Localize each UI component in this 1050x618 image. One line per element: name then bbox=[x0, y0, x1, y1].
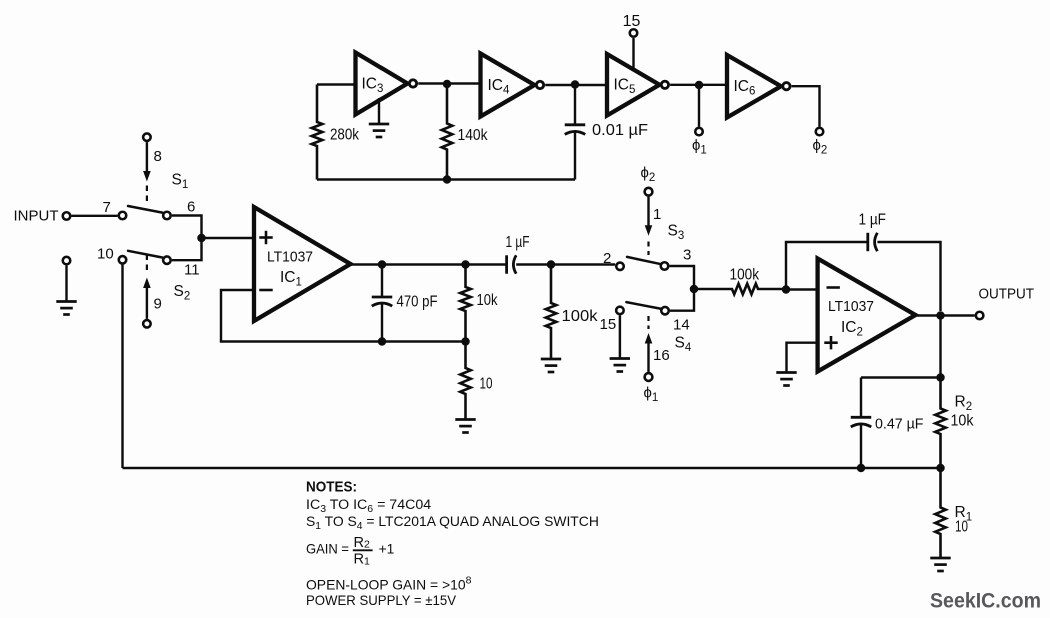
label 10 value bbox=[480, 376, 493, 393]
svg-text:S1 TO S4 = LTC201A QUAD ANALOG: S1 TO S4 = LTC201A QUAD ANALOG SWITCH bbox=[306, 513, 599, 532]
label phi2 top bbox=[813, 137, 828, 157]
switch S4 contact pin14 bbox=[661, 307, 669, 315]
capacitor 1uF feedback bbox=[868, 233, 878, 251]
svg-text:1 µF: 1 µF bbox=[859, 212, 887, 229]
wire IC2 plus ground bbox=[787, 343, 818, 373]
svg-text:6: 6 bbox=[187, 199, 195, 216]
node junction phi1 tap bbox=[695, 81, 704, 90]
node junction feedback res bbox=[461, 337, 470, 346]
switch S4 arm bbox=[626, 302, 661, 309]
arrow S1 control bbox=[143, 142, 151, 181]
wire feedback riser bbox=[121, 264, 123, 468]
dashed line S4 bbox=[647, 316, 649, 329]
label 16 bbox=[653, 347, 670, 364]
ground input side bbox=[56, 302, 76, 315]
svg-text:NOTES:: NOTES: bbox=[306, 480, 357, 496]
label 280k value bbox=[330, 127, 359, 144]
wire pin14 to node bbox=[670, 289, 694, 311]
label 140k value bbox=[458, 127, 488, 144]
resistor 100k shunt bbox=[546, 265, 557, 360]
svg-text:S2: S2 bbox=[174, 283, 191, 303]
svg-text:1 µF: 1 µF bbox=[506, 234, 530, 251]
label 470pF value bbox=[397, 294, 438, 311]
label phi1 bbox=[692, 137, 707, 157]
wire cap to S3 bbox=[516, 263, 615, 265]
dashed line S3 bbox=[647, 242, 649, 256]
svg-text:S4: S4 bbox=[675, 335, 692, 355]
op-amp IC2 bbox=[818, 259, 916, 372]
svg-text:10k: 10k bbox=[477, 292, 498, 309]
label IC2 bbox=[841, 319, 863, 339]
wire pin3 to node bbox=[670, 266, 695, 289]
terminal phi1 control bbox=[645, 373, 653, 381]
switch S3 arm bbox=[627, 257, 661, 264]
terminal phi2 top bbox=[816, 128, 824, 136]
label pin 11 bbox=[184, 262, 200, 279]
ground S4 pin15 bbox=[610, 359, 630, 372]
switch S1 arm bbox=[128, 206, 162, 213]
svg-text:+1: +1 bbox=[379, 542, 395, 557]
label S1 bbox=[172, 172, 189, 192]
label IC5 bbox=[614, 77, 636, 97]
svg-text:IC2: IC2 bbox=[841, 319, 863, 339]
label pin 3 bbox=[683, 247, 691, 264]
svg-text:R1: R1 bbox=[354, 552, 371, 568]
label NOTES heading bbox=[306, 480, 357, 496]
label 0.47uF value bbox=[875, 417, 924, 433]
svg-text:11: 11 bbox=[184, 262, 200, 279]
arrow S4 control bbox=[645, 333, 653, 372]
label 9 bbox=[154, 296, 162, 313]
wire node to IC2 bbox=[786, 288, 818, 290]
inverter IC6 bbox=[727, 55, 790, 118]
resistor 140k bbox=[442, 84, 453, 180]
node junction 100k shunt bbox=[547, 260, 556, 269]
svg-text:OUTPUT: OUTPUT bbox=[979, 287, 1035, 303]
label note IC3-IC6 bbox=[306, 497, 431, 515]
switch S3 contact pin2 bbox=[616, 263, 624, 271]
svg-text:0.47 µF: 0.47 µF bbox=[875, 417, 924, 433]
switch S4 contact pin15 bbox=[616, 307, 624, 315]
inverter IC4 bbox=[481, 54, 544, 117]
switch S2 contact pin10 bbox=[119, 256, 127, 264]
label IC6 bbox=[734, 78, 756, 98]
terminal 8 control bbox=[143, 133, 151, 141]
svg-text:470 pF: 470 pF bbox=[397, 294, 438, 311]
wire bottom feedback bbox=[123, 467, 941, 469]
svg-text:S3: S3 bbox=[668, 223, 685, 243]
label pin 6 bbox=[187, 199, 195, 216]
wire IC5 output to IC6 input bbox=[670, 84, 727, 86]
wire oscillator input to IC3 bbox=[317, 83, 356, 85]
label 8 bbox=[154, 148, 162, 165]
wire IC2 output bbox=[916, 314, 975, 316]
label R1 bbox=[955, 504, 973, 524]
label R2 value bbox=[951, 413, 974, 430]
wire to 0.47uF bbox=[861, 376, 941, 378]
svg-text:8: 8 bbox=[154, 148, 162, 165]
label phi2 control bbox=[641, 165, 656, 185]
svg-text:0.01 µF: 0.01 µF bbox=[592, 122, 648, 139]
svg-text:IC4: IC4 bbox=[488, 77, 511, 97]
node junction IC1 plus input bbox=[197, 234, 206, 243]
label R2 bbox=[955, 394, 973, 414]
label note S1-S4 bbox=[306, 513, 599, 532]
resistor 280k bbox=[312, 85, 323, 180]
svg-text:15: 15 bbox=[623, 13, 641, 30]
label 1uF feedback value bbox=[859, 212, 887, 229]
dashed line S1 bbox=[146, 186, 148, 204]
capacitor 1uF series bbox=[507, 255, 517, 273]
node junction IC4 input bbox=[443, 80, 452, 89]
label 0.01uF value bbox=[592, 122, 648, 139]
wire IC1 feedback loop bbox=[221, 290, 466, 342]
node junction 10k top bbox=[461, 260, 470, 269]
ground R1 bbox=[930, 558, 950, 571]
inverter IC5 bbox=[607, 54, 669, 116]
label LT1037 IC1 bbox=[267, 249, 313, 266]
op-amp IC1 bbox=[254, 207, 351, 321]
node junction output bbox=[936, 311, 945, 320]
svg-text:LT1037: LT1037 bbox=[828, 298, 874, 315]
wire oscillator bottom rail bbox=[317, 178, 575, 180]
svg-text:7: 7 bbox=[103, 199, 111, 216]
svg-text:100k: 100k bbox=[562, 308, 598, 325]
label S4 bbox=[675, 335, 692, 355]
terminal input ground bbox=[63, 257, 71, 302]
svg-text:2: 2 bbox=[603, 250, 611, 267]
node junction S3 S4 bbox=[690, 285, 699, 294]
terminal 15 supply bbox=[630, 29, 638, 70]
ground IC3 bbox=[369, 98, 389, 137]
wire IC4 output to IC5 input bbox=[545, 84, 607, 86]
wire output down bbox=[939, 316, 941, 378]
switch S2 contact pin11 bbox=[163, 256, 171, 264]
svg-text:R2: R2 bbox=[955, 394, 973, 414]
switch S3 contact pin3 bbox=[661, 262, 669, 270]
wire feedback to output bbox=[877, 242, 940, 311]
capacitor 470pF bbox=[372, 265, 393, 342]
label pin 7 bbox=[103, 199, 111, 216]
node junction cap bottom bbox=[857, 464, 866, 473]
label gain formula bbox=[306, 535, 394, 568]
resistor R1 bbox=[935, 468, 946, 558]
label 1uF value mid bbox=[506, 234, 530, 251]
svg-text:INPUT: INPUT bbox=[14, 208, 59, 225]
svg-text:POWER SUPPLY = ±15V: POWER SUPPLY = ±15V bbox=[306, 593, 457, 608]
wire pin11 to node bbox=[172, 238, 202, 260]
wire INPUT to pin7 bbox=[72, 215, 118, 217]
node junction IC1 output bbox=[378, 260, 387, 269]
terminal OUTPUT bbox=[976, 312, 984, 320]
label IC1 bbox=[280, 269, 302, 289]
label IC4 bbox=[488, 77, 511, 97]
label S2 bbox=[174, 283, 191, 303]
svg-text:SeekIC.com: SeekIC.com bbox=[930, 589, 1041, 613]
label 1 bbox=[653, 206, 661, 223]
terminal INPUT bbox=[63, 212, 71, 220]
svg-text:ϕ1: ϕ1 bbox=[692, 137, 707, 157]
svg-text:9: 9 bbox=[154, 296, 162, 313]
label 10k value bbox=[477, 292, 498, 309]
label S3 bbox=[668, 223, 685, 243]
wire pin15 ground stub bbox=[619, 315, 621, 358]
wire IC2 feedback top bbox=[786, 242, 868, 290]
svg-text:140k: 140k bbox=[458, 127, 488, 144]
terminal 9 control bbox=[143, 320, 151, 328]
node junction feedback cap bbox=[378, 337, 387, 346]
label phi1 control bbox=[644, 385, 659, 405]
label pin 2 bbox=[603, 250, 611, 267]
wire IC1 output bbox=[351, 263, 507, 265]
node junction IC5 input bbox=[571, 80, 580, 89]
label IC3 bbox=[362, 76, 384, 96]
label INPUT bbox=[14, 208, 59, 225]
label pin 14 bbox=[673, 317, 690, 334]
svg-text:280k: 280k bbox=[330, 127, 359, 144]
svg-text:15: 15 bbox=[600, 316, 617, 333]
switch S2 arm bbox=[128, 251, 162, 258]
svg-text:10: 10 bbox=[480, 376, 493, 393]
watermark SeekIC.com bbox=[930, 589, 1041, 613]
svg-text:100k: 100k bbox=[730, 267, 760, 284]
label OUTPUT bbox=[979, 287, 1035, 303]
wire phi1 stub bbox=[698, 85, 700, 127]
label pin 10 bbox=[97, 246, 114, 263]
node junction R2 top bbox=[936, 373, 945, 382]
svg-text:14: 14 bbox=[673, 317, 690, 334]
dashed line S2 bbox=[146, 255, 148, 275]
node junction IC2 minus bbox=[782, 285, 791, 294]
node junction R1 top bbox=[936, 464, 945, 473]
wire node to IC1 bbox=[202, 237, 255, 239]
label LT1037 IC2 bbox=[828, 298, 874, 315]
resistor 10k bbox=[460, 265, 471, 342]
label 100k shunt value bbox=[562, 308, 598, 325]
svg-text:10k: 10k bbox=[951, 413, 974, 430]
svg-text:10: 10 bbox=[955, 519, 968, 536]
svg-text:3: 3 bbox=[683, 247, 691, 264]
svg-text:S1: S1 bbox=[172, 172, 189, 192]
resistor R2 bbox=[935, 378, 946, 469]
wire pin6 to node bbox=[172, 216, 202, 239]
inverter IC3 bbox=[356, 53, 417, 115]
svg-text:IC1: IC1 bbox=[280, 269, 302, 289]
resistor 100k series bbox=[694, 284, 786, 295]
wire IC3 output to IC4 input bbox=[418, 82, 480, 84]
svg-text:ϕ1: ϕ1 bbox=[644, 385, 659, 405]
ground below 100k bbox=[541, 359, 561, 372]
terminal phi1 bbox=[695, 128, 703, 136]
terminal phi2 control bbox=[645, 188, 653, 196]
ground IC2 plus bbox=[776, 373, 796, 386]
switch S1 contact pin7 bbox=[119, 212, 127, 220]
arrow S2 control bbox=[143, 278, 151, 319]
svg-text:1: 1 bbox=[653, 206, 661, 223]
resistor 10 bbox=[460, 342, 471, 420]
ground below 10 bbox=[455, 420, 475, 433]
arrow S3 control bbox=[645, 197, 653, 236]
svg-text:ϕ2: ϕ2 bbox=[813, 137, 828, 157]
capacitor 0.47uF bbox=[851, 378, 872, 469]
svg-text:IC5: IC5 bbox=[614, 77, 636, 97]
label note open-loop gain bbox=[306, 575, 472, 593]
label R1 value bbox=[955, 519, 968, 536]
wire IC6 output bbox=[792, 86, 820, 127]
svg-text:LT1037: LT1037 bbox=[267, 249, 313, 266]
label 15 bbox=[623, 13, 641, 30]
label 100k series value bbox=[730, 267, 760, 284]
svg-text:ϕ2: ϕ2 bbox=[641, 165, 656, 185]
node junction bottom rail 140k bbox=[443, 175, 452, 184]
svg-text:R2: R2 bbox=[354, 535, 371, 551]
capacitor 0.01uF bbox=[565, 85, 586, 180]
svg-text:10: 10 bbox=[97, 246, 114, 263]
svg-text:IC3: IC3 bbox=[362, 76, 384, 96]
switch S1 contact pin6 bbox=[163, 212, 171, 220]
label note power supply bbox=[306, 593, 457, 608]
svg-text:16: 16 bbox=[653, 347, 670, 364]
svg-text:GAIN =: GAIN = bbox=[306, 542, 349, 557]
svg-text:OPEN-LOOP GAIN = >108: OPEN-LOOP GAIN = >108 bbox=[306, 575, 472, 593]
svg-text:IC6: IC6 bbox=[734, 78, 756, 98]
label pin 15 bbox=[600, 316, 617, 333]
